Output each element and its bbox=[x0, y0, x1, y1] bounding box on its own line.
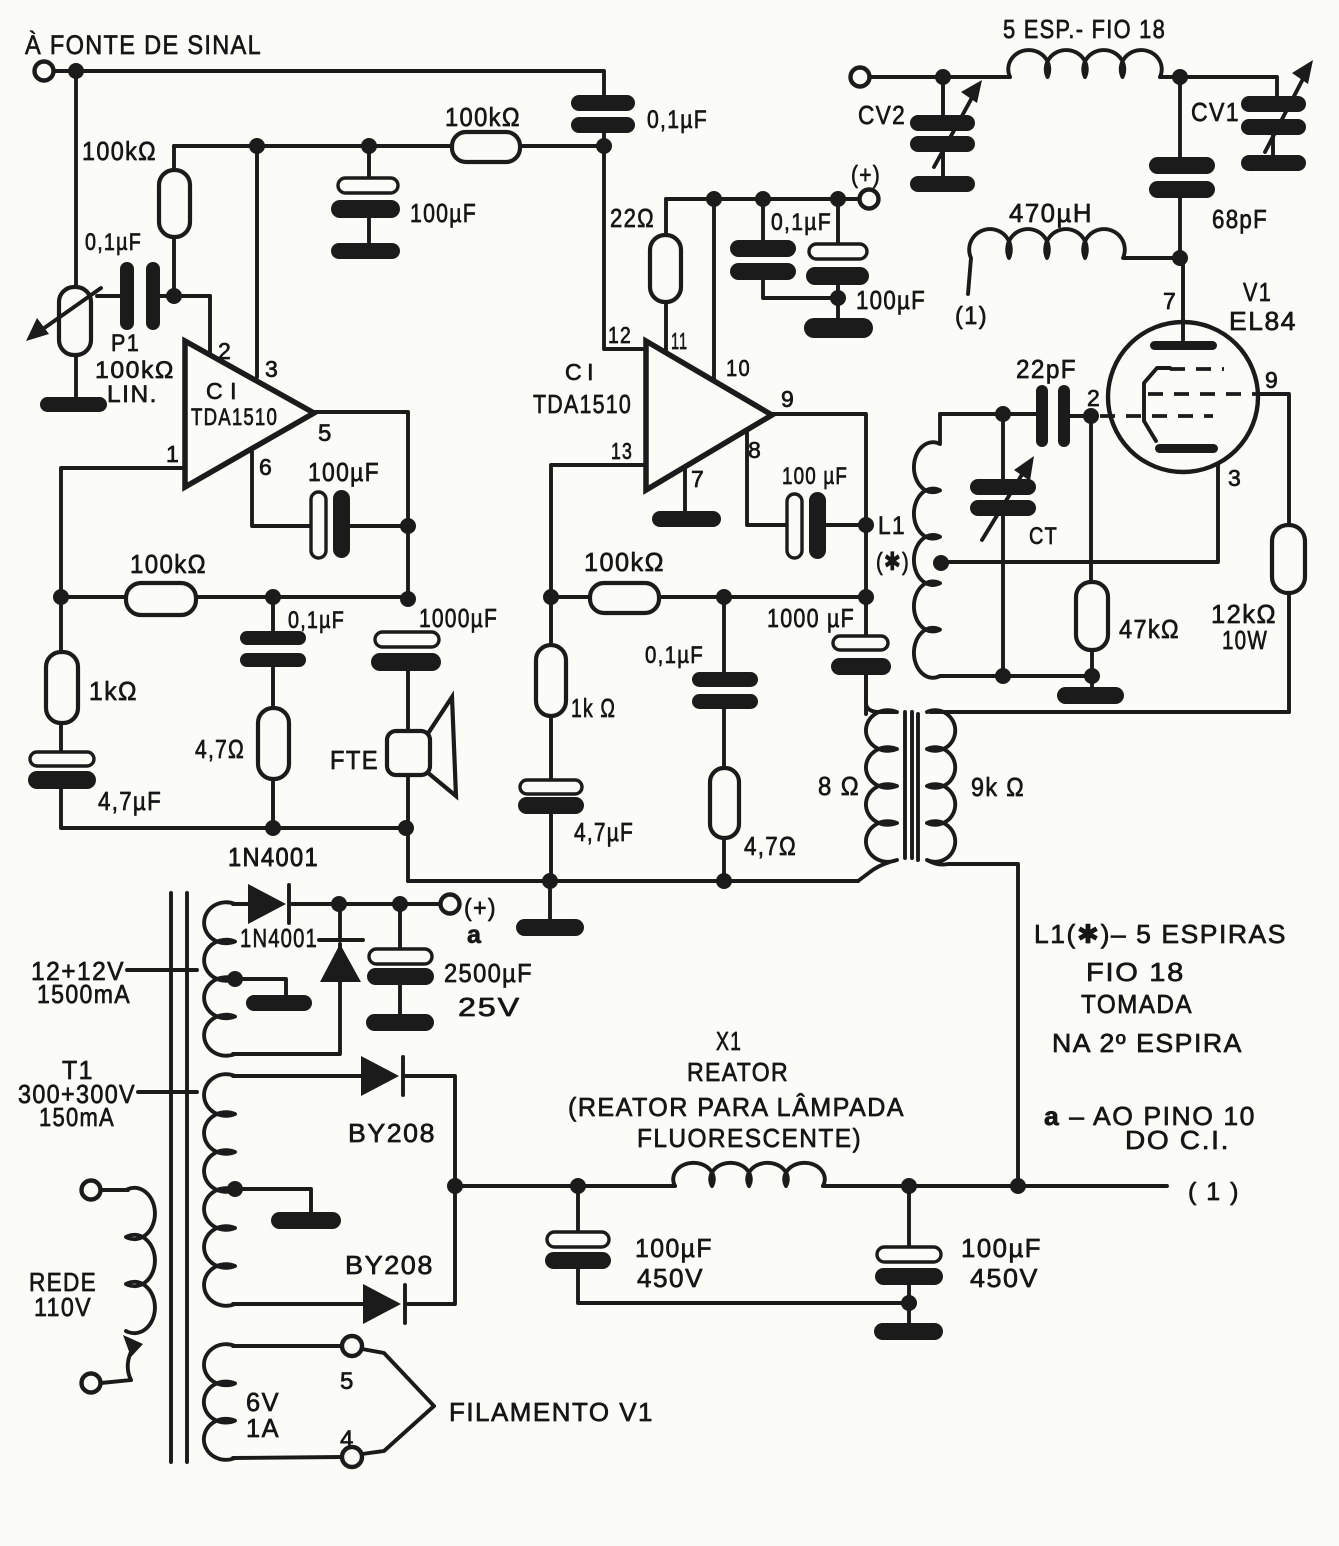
svg-text:REATOR: REATOR bbox=[687, 1057, 789, 1087]
wire pointer HV bbox=[138, 1090, 197, 1094]
capacitor 0,1uF input top bbox=[571, 95, 635, 146]
svg-text:1N4001: 1N4001 bbox=[240, 923, 318, 953]
node B+ junction bbox=[447, 1178, 463, 1194]
svg-text:(REATOR PARA LÂMPADA: (REATOR PARA LÂMPADA bbox=[568, 1092, 905, 1122]
node 2500uF junction bbox=[392, 896, 408, 912]
svg-text:BY208: BY208 bbox=[348, 1118, 436, 1148]
resistor 4,7R ch1 bbox=[258, 708, 289, 828]
T1 primary last turn with arrow bbox=[128, 1349, 133, 1380]
coil 5 ESP FIO 18 bbox=[1008, 50, 1161, 77]
wire HV bottom to BY208 bbox=[233, 1302, 363, 1306]
wire input top rail bbox=[54, 71, 604, 95]
tube beam electrode outline bbox=[1144, 368, 1170, 441]
resistor 4,7R ch2 bbox=[710, 768, 739, 881]
svg-text:2500µF: 2500µF bbox=[444, 958, 533, 988]
svg-text:22pF: 22pF bbox=[1016, 354, 1077, 384]
svg-text:6: 6 bbox=[259, 454, 273, 480]
svg-text:FIO 18: FIO 18 bbox=[1086, 957, 1185, 987]
wire pin7 amp2 bbox=[683, 467, 687, 511]
node 0,1uF-100uF supply junction bbox=[830, 290, 846, 306]
wire bias rail y146 bbox=[174, 144, 452, 148]
potentiometer P1 bbox=[59, 287, 91, 396]
wire tank top bbox=[940, 412, 1036, 416]
svg-text:1500mA: 1500mA bbox=[37, 979, 131, 1009]
capacitor 68pF bbox=[1149, 77, 1215, 258]
wire pointer 12V bbox=[127, 968, 197, 972]
ground 450V caps bbox=[874, 1323, 943, 1340]
node fb mid ch1 bbox=[265, 589, 281, 605]
node fb out ch2 bbox=[858, 589, 874, 605]
svg-text:a: a bbox=[467, 921, 482, 949]
node 0,1uF supply junction bbox=[755, 191, 771, 207]
svg-text:100kΩ: 100kΩ bbox=[584, 547, 665, 577]
node 470uH junction bbox=[1172, 250, 1188, 266]
node tank gnd junction bbox=[1084, 668, 1100, 684]
svg-text:22Ω: 22Ω bbox=[610, 203, 655, 233]
svg-text:2: 2 bbox=[1087, 385, 1101, 411]
wire coil to CV1 bbox=[1160, 77, 1277, 96]
svg-text:10: 10 bbox=[726, 355, 751, 381]
svg-text:4,7µF: 4,7µF bbox=[98, 786, 162, 816]
transformer X2 primary 8R bbox=[858, 675, 897, 881]
wire mains bottom bbox=[101, 1380, 131, 1383]
wire HV tap bbox=[235, 1189, 311, 1212]
svg-text:TDA1510: TDA1510 bbox=[191, 404, 278, 431]
svg-text:CV2: CV2 bbox=[858, 100, 906, 130]
terminal pin5 bbox=[342, 1336, 362, 1356]
wire gnd stub rail2 bbox=[548, 881, 552, 919]
svg-text:8: 8 bbox=[748, 437, 762, 463]
svg-text:8 Ω: 8 Ω bbox=[818, 771, 860, 801]
svg-text:EL84: EL84 bbox=[1229, 306, 1297, 336]
ground HV tap bbox=[271, 1212, 341, 1229]
capacitor 0,1uF P1 bbox=[97, 262, 210, 330]
svg-text:100µF: 100µF bbox=[635, 1233, 713, 1263]
ground tank bbox=[1057, 687, 1124, 704]
node rail2 4,7R ch2 bbox=[716, 873, 732, 889]
svg-text:FTE: FTE bbox=[330, 745, 379, 775]
diode 1N4001 D1 bbox=[248, 884, 440, 924]
svg-text:100kΩ: 100kΩ bbox=[95, 357, 175, 384]
node fb left ch2 bbox=[543, 589, 559, 605]
wire secondary top to 12k bbox=[930, 710, 1289, 714]
svg-text:3: 3 bbox=[265, 356, 279, 382]
resistor 22R bbox=[650, 199, 681, 353]
svg-text:100µF: 100µF bbox=[308, 457, 380, 487]
wire pin10 amp2 bbox=[712, 199, 716, 382]
node rail2 gnd stub bbox=[542, 873, 558, 889]
capacitor CT variable bbox=[970, 414, 1036, 676]
capacitor 0,1uF feedback ch2 bbox=[692, 597, 758, 768]
svg-text:L1: L1 bbox=[878, 512, 906, 540]
op-amp U1 TDA1510 channel1 bbox=[185, 341, 314, 487]
svg-text:LIN.: LIN. bbox=[107, 381, 158, 408]
coil 470uH bbox=[968, 229, 1180, 294]
T1 winding 6V bbox=[204, 1344, 235, 1460]
svg-text:0,1µF: 0,1µF bbox=[645, 642, 704, 669]
svg-text:1: 1 bbox=[166, 441, 180, 467]
capacitor 2500uF bbox=[367, 904, 434, 1014]
wire pin12 amp2 bbox=[604, 146, 646, 349]
node CT bottom junction bbox=[995, 668, 1011, 684]
svg-text:4,7Ω: 4,7Ω bbox=[195, 734, 245, 764]
input terminal bbox=[35, 62, 54, 81]
ground pin7 amp2 bbox=[652, 511, 721, 527]
svg-text:100 µF: 100 µF bbox=[782, 463, 848, 490]
node rail1 mid bbox=[265, 820, 281, 836]
tube V1 EL84 envelope bbox=[1108, 322, 1258, 472]
wire antenna rail bbox=[870, 75, 1010, 79]
T1 winding 12+12V bbox=[204, 902, 235, 1056]
tube anode plate bbox=[1150, 341, 1217, 350]
node 68pF junction top bbox=[1172, 69, 1188, 85]
diode 1N4001 D2 bbox=[319, 904, 363, 982]
capacitor 4,7uF ch1 bbox=[28, 752, 408, 828]
svg-text:0,1µF: 0,1µF bbox=[85, 229, 142, 256]
svg-text:BY208: BY208 bbox=[345, 1250, 434, 1280]
node D1 D2 junction bbox=[331, 896, 347, 912]
capacitor 0,1uF supply bbox=[730, 199, 838, 298]
capacitor 1000uF ch1 bbox=[371, 632, 441, 731]
resistor 1k ch1 bbox=[46, 597, 78, 752]
diode BY208 D3 bbox=[361, 1056, 455, 1186]
svg-text:5: 5 bbox=[340, 1368, 355, 1395]
node fb out ch1 bbox=[400, 591, 416, 607]
terminal supply plus bbox=[860, 190, 879, 209]
svg-text:9: 9 bbox=[1265, 367, 1279, 393]
wire feedback row ch1 bbox=[61, 595, 126, 599]
svg-text:5 ESP.- FIO 18: 5 ESP.- FIO 18 bbox=[1003, 14, 1166, 44]
terminal pin4 bbox=[342, 1447, 362, 1467]
svg-text:CT: CT bbox=[1029, 523, 1058, 550]
node rail1 right bbox=[398, 820, 414, 836]
svg-text:10W: 10W bbox=[1222, 625, 1268, 655]
wire pin2 amp1 bbox=[208, 296, 212, 353]
node C1 C2 junction bbox=[901, 1295, 917, 1311]
tube grid g2 dashes bbox=[1170, 367, 1224, 371]
diode BY208 D4 bbox=[363, 1186, 455, 1324]
svg-text:0,1µF: 0,1µF bbox=[771, 209, 832, 236]
wire output amp2 bbox=[772, 414, 866, 636]
capacitor 100uF input bbox=[331, 146, 400, 243]
terminal mains top bbox=[82, 1181, 101, 1200]
arrow mains tap bbox=[123, 1335, 143, 1357]
svg-text:4,7Ω: 4,7Ω bbox=[744, 831, 797, 861]
svg-text:(+): (+) bbox=[464, 894, 497, 922]
svg-text:47kΩ: 47kΩ bbox=[1119, 614, 1180, 644]
wire pin9 bbox=[1258, 394, 1289, 525]
svg-text:25V: 25V bbox=[458, 992, 521, 1022]
T1 winding 300+300V bbox=[204, 1074, 235, 1306]
transformer T1 core bbox=[171, 893, 187, 1462]
resistor 47k bbox=[1076, 416, 1108, 687]
node 100uF450 n2 bbox=[901, 1178, 917, 1194]
antenna terminal bbox=[851, 68, 870, 87]
wire cathode to tap bbox=[941, 452, 1218, 562]
capacitor 4,7uF ch2 bbox=[518, 780, 584, 881]
node pin3 junction bbox=[249, 138, 265, 154]
ground 2500uF bbox=[366, 1014, 434, 1031]
wire 6V top bbox=[233, 1344, 342, 1348]
ground P1 bbox=[40, 397, 107, 412]
resistor 12k 10W bbox=[1272, 525, 1305, 712]
svg-text:1000µF: 1000µF bbox=[419, 603, 498, 633]
node CT top junction bbox=[995, 406, 1011, 422]
svg-text:(✱): (✱) bbox=[876, 548, 910, 576]
svg-text:TDA1510: TDA1510 bbox=[533, 389, 632, 419]
svg-text:DO C.I.: DO C.I. bbox=[1125, 1125, 1230, 1155]
resistor 100k top horizontal bbox=[452, 132, 520, 162]
node grid junction bbox=[1083, 408, 1099, 424]
speaker FTE bbox=[387, 697, 456, 881]
svg-text:(+): (+) bbox=[851, 161, 881, 189]
capacitor 22pF bbox=[1036, 385, 1091, 447]
wire 12V top to diode bbox=[233, 902, 248, 906]
capacitor 100uF pin6 amp1 bbox=[311, 490, 408, 558]
svg-text:CI: CI bbox=[565, 359, 595, 385]
svg-text:7: 7 bbox=[1163, 288, 1177, 314]
wire to P1 bbox=[74, 71, 78, 287]
svg-text:(1): (1) bbox=[955, 302, 988, 330]
svg-text:1kΩ: 1kΩ bbox=[89, 676, 138, 706]
capacitor CV1 variable bbox=[1241, 60, 1313, 171]
node input junction bbox=[68, 63, 84, 79]
svg-text:À FONTE DE SINAL: À FONTE DE SINAL bbox=[25, 30, 262, 60]
transformer X2 core bbox=[905, 712, 918, 860]
svg-text:V1: V1 bbox=[1243, 277, 1272, 307]
capacitor 0,1uF feedback ch1 bbox=[240, 597, 306, 708]
svg-text:( 1 ): ( 1 ) bbox=[1188, 1178, 1240, 1206]
node pin10 junction bbox=[706, 191, 722, 207]
svg-text:100kΩ: 100kΩ bbox=[445, 102, 521, 132]
capacitor 100uF supply bbox=[806, 199, 869, 318]
svg-text:11: 11 bbox=[671, 328, 688, 354]
wire tank bottom rail bbox=[940, 674, 1092, 678]
node fb left ch1 bbox=[53, 589, 69, 605]
wire supply rail y199 bbox=[666, 197, 859, 201]
ground supply caps bbox=[804, 318, 873, 338]
P1 wiper arrow bbox=[26, 288, 101, 341]
svg-text:TOMADA: TOMADA bbox=[1081, 989, 1193, 1019]
capacitor 1000uF ch2 bbox=[831, 636, 891, 714]
tube grid g1 dashes bbox=[1100, 414, 1213, 418]
wire B+ rail right bbox=[823, 1184, 1167, 1188]
svg-text:1k Ω: 1k Ω bbox=[571, 693, 616, 723]
node 100uF junction bbox=[361, 138, 377, 154]
svg-text:1000 µF: 1000 µF bbox=[767, 603, 855, 633]
wire pin6 amp1 bbox=[252, 452, 312, 526]
ground 12V tap bbox=[246, 995, 312, 1011]
resistor 100k feedback ch1 bbox=[126, 583, 196, 615]
svg-text:9: 9 bbox=[781, 386, 795, 412]
svg-text:100µF: 100µF bbox=[961, 1233, 1042, 1263]
wire ground rail2 bbox=[408, 879, 858, 883]
svg-text:P1: P1 bbox=[111, 330, 140, 357]
svg-text:12: 12 bbox=[608, 322, 632, 348]
svg-text:FLUORESCENTE): FLUORESCENTE) bbox=[637, 1123, 862, 1153]
wire 12V tap bbox=[235, 979, 286, 995]
node rail-0,1uF junction bbox=[596, 138, 612, 154]
svg-text:L1(✱)– 5 ESPIRAS: L1(✱)– 5 ESPIRAS bbox=[1034, 919, 1287, 949]
capacitor 100uF 450V C1 bbox=[545, 1186, 909, 1303]
resistor 100k input vertical bbox=[159, 146, 190, 296]
wire anode pin7 bbox=[1181, 258, 1185, 341]
wire 12V bottom to D2 bbox=[233, 944, 340, 1054]
node CV2 junction bbox=[935, 69, 951, 85]
wire feedback row ch2 bbox=[551, 595, 590, 599]
node output-100uF junction amp2 bbox=[858, 517, 874, 533]
transformer X2 secondary 9k bbox=[927, 710, 1018, 1186]
svg-text:0,1µF: 0,1µF bbox=[288, 607, 345, 634]
tube cathode plate bbox=[1155, 444, 1218, 453]
svg-text:450V: 450V bbox=[970, 1263, 1039, 1293]
node L1 tap bbox=[933, 555, 949, 571]
svg-text:NA 2º ESPIRA: NA 2º ESPIRA bbox=[1052, 1028, 1243, 1058]
svg-text:7: 7 bbox=[691, 466, 705, 492]
node P1 cap junction bbox=[166, 288, 182, 304]
ground rail2 bbox=[516, 919, 584, 936]
svg-text:68pF: 68pF bbox=[1212, 204, 1268, 234]
svg-text:3: 3 bbox=[1228, 465, 1242, 491]
svg-text:1A: 1A bbox=[246, 1413, 280, 1443]
capacitor CV2 variable bbox=[910, 77, 982, 192]
svg-text:100µF: 100µF bbox=[410, 198, 477, 228]
svg-text:0,1µF: 0,1µF bbox=[647, 106, 708, 134]
resistor 100k feedback ch2 bbox=[590, 583, 659, 613]
wire pin1 amp1 bbox=[61, 468, 185, 597]
op-amp U2 TDA1510 channel2 bbox=[646, 341, 772, 490]
svg-text:4: 4 bbox=[340, 1426, 355, 1453]
svg-text:CV1: CV1 bbox=[1191, 97, 1240, 127]
svg-text:X1: X1 bbox=[716, 1026, 742, 1056]
wire output amp1 bbox=[314, 412, 408, 600]
svg-text:110V: 110V bbox=[34, 1292, 92, 1322]
svg-text:13: 13 bbox=[611, 438, 633, 464]
terminal mains bottom bbox=[82, 1374, 101, 1393]
resistor 1k ch2 bbox=[536, 597, 566, 780]
coil L1 tank bbox=[914, 414, 940, 678]
svg-text:100kΩ: 100kΩ bbox=[130, 549, 207, 579]
svg-text:FILAMENTO V1: FILAMENTO V1 bbox=[449, 1397, 654, 1427]
capacitor 100uF 450V C2 bbox=[875, 1186, 943, 1323]
node 12V tap bbox=[227, 971, 243, 987]
svg-text:150mA: 150mA bbox=[39, 1102, 115, 1132]
reactor X1 coil bbox=[673, 1163, 825, 1186]
tube grid g3 dashes pin9 bbox=[1148, 392, 1258, 396]
wire pin8 amp2 bbox=[747, 431, 787, 525]
wire 6V bottom bbox=[233, 1457, 342, 1458]
wire B+ rail left bbox=[455, 1184, 675, 1188]
svg-text:100µF: 100µF bbox=[856, 285, 926, 315]
node 100uF supply junction bbox=[830, 191, 846, 207]
node HV tap bbox=[227, 1181, 243, 1197]
filament arrow lines bbox=[362, 1349, 434, 1454]
node output-100uF junction amp1 bbox=[400, 518, 416, 534]
capacitor 100uF pin8 amp2 bbox=[787, 492, 866, 559]
svg-text:9k Ω: 9k Ω bbox=[971, 772, 1025, 802]
svg-text:CI: CI bbox=[206, 378, 238, 404]
node sec return junction bbox=[1010, 1178, 1026, 1194]
wire mains top bbox=[101, 1188, 128, 1192]
svg-text:100kΩ: 100kΩ bbox=[82, 136, 157, 166]
svg-text:1N4001: 1N4001 bbox=[228, 842, 319, 872]
node fb mid ch2 bbox=[716, 589, 732, 605]
svg-text:450V: 450V bbox=[637, 1263, 704, 1293]
wire pin13 amp2 bbox=[551, 465, 646, 597]
svg-text:4,7µF: 4,7µF bbox=[574, 817, 634, 847]
node 100uF450 n1 bbox=[570, 1178, 586, 1194]
ground 100uF input bbox=[331, 243, 400, 259]
svg-text:470µH: 470µH bbox=[1009, 198, 1093, 228]
svg-text:5: 5 bbox=[318, 420, 333, 447]
terminal 12V plus bbox=[441, 895, 460, 914]
wire HV top to BY208 bbox=[233, 1074, 361, 1078]
wire pin3 amp1 bbox=[255, 146, 259, 377]
T1 primary winding bbox=[126, 1188, 155, 1333]
